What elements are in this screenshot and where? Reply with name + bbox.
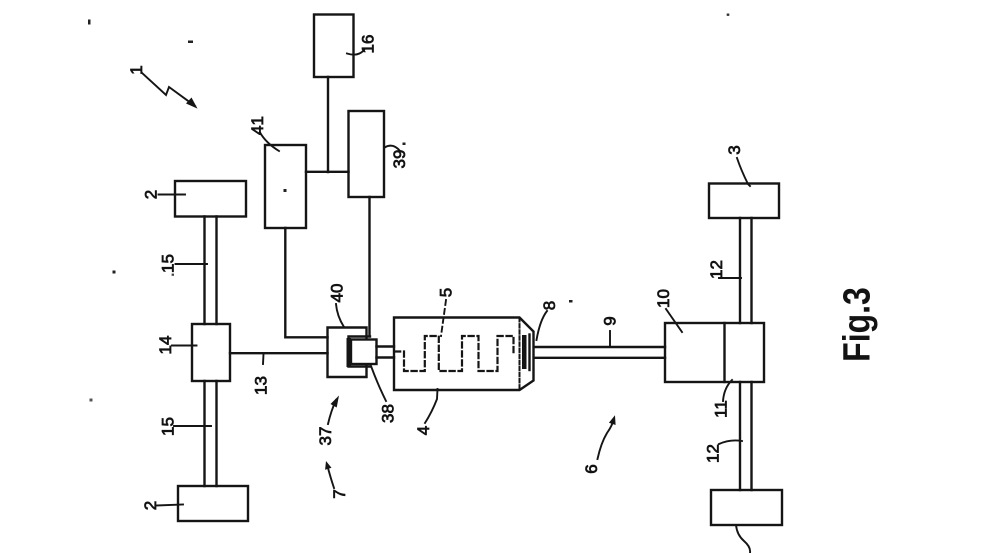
box 41 — [265, 145, 306, 228]
axle 12 bottom right — [740, 382, 752, 490]
svg-text:12: 12 — [703, 444, 722, 463]
svg-text:9: 9 — [601, 316, 620, 325]
leader label 8 — [537, 311, 548, 340]
wire 41 to 39 — [306, 171, 349, 173]
svg-text:Fig.3: Fig.3 — [836, 287, 878, 362]
svg-text:6: 6 — [582, 464, 601, 473]
leader label 39 — [385, 146, 401, 151]
leader label 13 — [262, 354, 265, 364]
box 16 — [314, 15, 354, 78]
commutator plates 8 — [522, 335, 527, 369]
axle 12 top right — [740, 218, 752, 323]
leader label 2 bottom — [157, 505, 183, 506]
axle 15 top — [205, 217, 217, 325]
gearbox 14 — [192, 324, 230, 381]
differential 10 — [665, 323, 764, 382]
leader label 15 top — [176, 263, 208, 265]
box 39 — [349, 111, 385, 197]
leader label 9 — [609, 331, 611, 346]
wheel 2 (top left) — [175, 181, 246, 217]
axle 15 bottom — [205, 381, 217, 486]
leader label 40 — [336, 304, 344, 327]
svg-text:10: 10 — [654, 289, 673, 308]
svg-text:3: 3 — [725, 145, 744, 154]
leader label 10 — [666, 309, 682, 332]
clutch disc 38 — [351, 340, 377, 365]
leader label 16 — [347, 50, 364, 55]
motor 4 body — [394, 318, 534, 391]
leader label 12 lower — [719, 440, 742, 444]
leader label 4 — [425, 389, 438, 423]
svg-text:40: 40 — [328, 284, 347, 303]
leader bottom right wheel — [736, 525, 750, 553]
clutch bar (solid) — [347, 338, 352, 367]
shaft 13 — [230, 352, 328, 354]
wheel 3 (top right) — [709, 184, 779, 219]
svg-text:12: 12 — [707, 260, 726, 279]
svg-text:15: 15 — [159, 254, 178, 273]
shaft clutch to motor — [377, 347, 395, 358]
leader label 12 upper — [719, 277, 741, 279]
leader label 11 — [723, 380, 732, 401]
wire 41 down to clutch — [285, 228, 327, 337]
svg-text:4: 4 — [414, 426, 433, 435]
svg-text:8: 8 — [540, 301, 559, 310]
differential divider 11 — [723, 323, 725, 382]
svg-text:38: 38 — [379, 404, 398, 423]
svg-text:11: 11 — [712, 400, 731, 418]
svg-text:5: 5 — [437, 288, 456, 297]
svg-text:7: 7 — [330, 489, 349, 498]
svg-text:39: 39 — [390, 150, 409, 169]
winding 5 (dashed) — [395, 336, 514, 371]
flywheel C 40 — [349, 337, 371, 367]
svg-text:2: 2 — [142, 190, 161, 199]
leader label 41 — [260, 133, 279, 152]
svg-text:1: 1 — [127, 65, 146, 74]
leader label 7 arrow — [328, 466, 335, 488]
svg-text:13: 13 — [252, 376, 271, 395]
svg-text:2: 2 — [141, 501, 160, 510]
leader label 3 — [737, 158, 750, 186]
leader label 6 arrow — [598, 420, 614, 459]
svg-text:15: 15 — [159, 417, 178, 436]
leader label 5 (dashed) — [441, 300, 446, 336]
shaft 9 — [535, 347, 666, 358]
leader label 1 arrow — [142, 73, 195, 106]
svg-text:41: 41 — [248, 116, 267, 135]
leader label 37 arrow — [328, 400, 336, 424]
wheel 2 (bottom left) — [178, 486, 248, 521]
clutch housing 37 — [328, 328, 367, 378]
svg-text:16: 16 — [359, 35, 378, 54]
svg-text:14: 14 — [156, 336, 175, 355]
wire 39 down to clutch — [368, 197, 370, 336]
svg-text:37: 37 — [316, 427, 335, 446]
wire 16 down — [327, 77, 329, 172]
leader label 15 bottom — [174, 425, 211, 427]
wheel 3 (bottom right) — [711, 490, 782, 525]
leader label 2 top — [159, 194, 186, 196]
leader label 38 — [371, 366, 386, 401]
leader label 14 — [172, 345, 197, 347]
